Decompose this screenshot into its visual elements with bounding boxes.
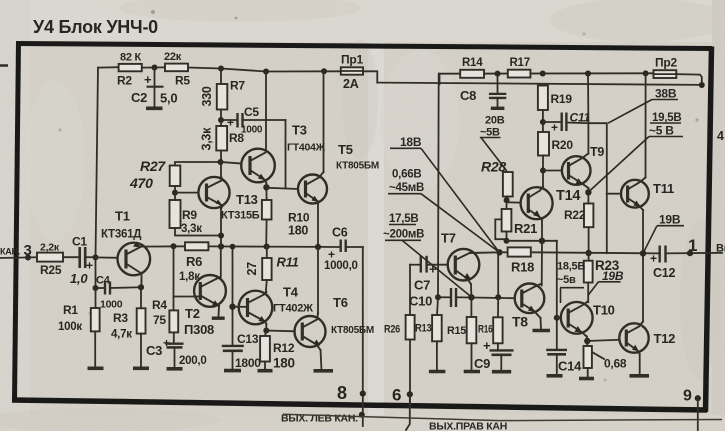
node C10 right / R15 / T7e — [468, 294, 474, 300]
resistor R17 — [508, 70, 531, 78]
transistor T8 — [512, 284, 544, 330]
wire top-left bus — [98, 66, 119, 68]
wire T3 collector — [265, 72, 267, 152]
resistor R8 — [200, 126, 245, 177]
wire T14 base — [507, 201, 520, 203]
left channel — [0, 51, 379, 426]
wire V1 bus to C10 — [437, 74, 440, 298]
node 17,5В annotation — [383, 213, 471, 297]
wire T10e to T12 base — [587, 340, 619, 341]
node C10 left / R13 — [435, 294, 441, 300]
node T4e/T6 base — [263, 328, 269, 334]
node 18,5В annotation — [557, 261, 585, 304]
transistor T2 — [184, 275, 226, 337]
wire Пр2 to corner — [676, 74, 702, 85]
wire T5 emitter to output node — [317, 204, 319, 247]
rail T1 emitter to R6 — [139, 245, 185, 247]
capacitor C2 — [131, 68, 177, 109]
node 6 — [407, 391, 413, 397]
node T11e/T12c output — [640, 250, 646, 256]
node R4 tap on rail — [171, 243, 177, 249]
wire T2 collector — [220, 247, 222, 278]
capacitor C3 — [146, 336, 207, 369]
resistor R18 — [499, 247, 534, 274]
wire T10 emitter — [586, 337, 589, 347]
node C4 left — [93, 285, 99, 291]
rail A from Пр1 to Пр2 corner — [377, 83, 703, 85]
resistor R2 — [119, 64, 142, 71]
node rail output T5/T6 — [315, 244, 321, 250]
output line R18 to C12 — [531, 252, 660, 253]
node R27 tap — [218, 159, 224, 165]
node 20В annotation — [480, 115, 507, 172]
wire T13 emitter to rail — [220, 209, 222, 247]
node T5 collector top — [321, 68, 327, 74]
capacitor C8 — [460, 74, 506, 109]
node T9e/R22 — [585, 189, 591, 195]
capacitor C6 — [324, 226, 363, 273]
node T9 column top — [585, 71, 591, 77]
capacitor C10 — [409, 288, 515, 309]
wire to T6 base — [266, 330, 294, 333]
node T3 collector top — [263, 69, 269, 75]
fuse Пр1 — [341, 53, 364, 92]
wire R1 column — [95, 288, 97, 308]
wire C5 to T5 base — [285, 120, 287, 189]
frame bottom border — [12, 400, 707, 410]
node R19 top — [540, 71, 546, 77]
node C11 tap — [540, 119, 546, 125]
wire C14 column — [556, 241, 558, 350]
wire stub rail A to bus B — [439, 74, 441, 85]
title У4 Блок УНЧ-0 — [33, 17, 158, 37]
wire Пр1 to right rail step — [363, 71, 377, 82]
wire T9 emitter — [587, 188, 589, 204]
resistor R21 — [495, 202, 537, 241]
transistor T10 — [557, 302, 615, 337]
capacitor C12 — [650, 246, 722, 281]
node T13e/R9 — [218, 233, 224, 239]
wire T3 emitter node to T5 base — [265, 183, 267, 200]
wire R21 bottom to C14 column — [507, 240, 557, 242]
node C8 — [495, 71, 501, 77]
node rail R10 — [264, 244, 270, 250]
capacitor C4 — [96, 275, 140, 311]
node 38В annotation — [608, 87, 678, 124]
transistor T13 — [198, 177, 259, 222]
node 19В annotation (T10) — [588, 269, 624, 295]
rail to output node — [266, 246, 340, 248]
wire jog to T11 base column — [588, 123, 606, 253]
node output R22/R23 — [585, 250, 591, 256]
wire R5 to R7 column — [188, 68, 341, 72]
resistor R7 — [200, 69, 245, 127]
transistor T7 — [427, 231, 499, 285]
resistor R14 — [460, 70, 484, 78]
node T14 base — [504, 197, 510, 203]
wire T2 base — [174, 296, 200, 298]
node T4 base — [229, 304, 235, 310]
ground R3 — [133, 366, 149, 370]
node T1 collector / R3 — [138, 284, 144, 290]
wire T14 emitter down — [541, 220, 543, 241]
transistor T6 — [295, 295, 374, 350]
wire node to C10 line — [497, 252, 499, 297]
wire R25-C1 — [63, 256, 79, 258]
resistor R26 — [384, 315, 415, 405]
tick left edge — [0, 64, 8, 67]
frame top border — [16, 44, 712, 49]
wire T6 collector — [317, 247, 319, 313]
wire T5 collector — [323, 71, 325, 172]
wire T9 base — [543, 170, 562, 172]
right channel — [377, 56, 725, 431]
wire T2 emitter to end bar — [218, 306, 221, 317]
resistor R9 — [170, 200, 222, 236]
paper crease band between channels — [368, 42, 384, 431]
node rail T13e — [218, 243, 224, 249]
capacitor C5 — [221, 105, 286, 136]
node T9 base tap — [540, 168, 546, 174]
node T10 base — [554, 315, 560, 321]
wire T7 emitter to C10 node — [470, 284, 472, 297]
resistor R10 — [262, 200, 310, 247]
transistor T4 — [239, 285, 313, 325]
transistor T3 — [221, 123, 326, 184]
resistor R27 — [129, 158, 221, 200]
node 18В annotation — [390, 135, 499, 252]
fuse Пр2 — [654, 56, 678, 79]
capacitor C14 — [546, 350, 582, 376]
wire to T1 base — [96, 256, 118, 258]
frame left border — [15, 42, 19, 402]
node C2 junction — [152, 65, 158, 71]
node R27/R9/T13 base — [172, 190, 178, 196]
wire rail to C13 column — [232, 247, 234, 346]
resistor R16 — [478, 297, 503, 350]
resistor R23 — [584, 258, 620, 302]
transistor T12 — [619, 322, 675, 355]
frame right border — [706, 47, 712, 413]
node T10e/T12 base — [584, 338, 590, 344]
resistor R3 — [111, 308, 146, 367]
wire T12 emitter ground — [639, 354, 641, 375]
resistor R12 — [258, 331, 295, 371]
wire node6 below frame — [406, 394, 410, 430]
paper rule below frame right — [283, 414, 722, 420]
wire T6 emitter ground — [321, 350, 322, 370]
node 9 — [695, 395, 701, 401]
resistor R15 — [447, 297, 480, 371]
resistor R11 — [245, 247, 299, 292]
node R16 top — [495, 294, 501, 300]
resistor R20 — [538, 132, 573, 187]
wire C6 down to node 8 — [362, 247, 364, 426]
resistor R13 — [415, 297, 445, 371]
wire R4 column — [173, 246, 175, 310]
wire node 9 below frame — [697, 398, 699, 430]
capacitor C13 — [222, 332, 261, 371]
wire left bus vertical to input — [96, 68, 99, 258]
wire T14e to T8 collector — [541, 241, 543, 286]
node 19В annotation (C12) — [643, 213, 684, 253]
wire T13 base — [175, 192, 199, 194]
resistor R22 — [564, 204, 593, 261]
node rail A right end — [699, 82, 705, 88]
wire T4 emitter to R12 — [265, 324, 267, 331]
wire R2-R5 — [142, 66, 165, 68]
wire node8 below frame — [359, 412, 365, 418]
bus B R14/R17 — [440, 72, 654, 74]
resistor R5 — [165, 64, 188, 72]
resistor R1 — [58, 303, 100, 368]
resistor R28 — [481, 159, 513, 203]
wire R26 column — [409, 265, 411, 315]
transistor T14 — [521, 187, 581, 220]
node R18 junction — [496, 249, 502, 255]
node 8 — [360, 391, 366, 397]
node 1 — [687, 250, 693, 256]
resistor R19 — [538, 86, 572, 133]
node T3e/R10/T5 base — [263, 184, 269, 190]
wire T11 emitter / T12 collector column — [642, 210, 644, 322]
capacitor C1 — [70, 235, 96, 287]
resistor R4 — [152, 298, 178, 343]
node T1 base — [93, 254, 99, 260]
resistor R25 — [37, 253, 63, 262]
node R7 top — [218, 66, 224, 72]
node T11 column top — [643, 70, 649, 76]
wire T9 collector column with jog — [587, 74, 589, 154]
node 0,66В annotation — [388, 169, 499, 253]
node 19,5В annotation — [588, 112, 683, 192]
transistor T11 — [607, 178, 674, 211]
node R21 bottom — [504, 238, 510, 244]
node C5 tap — [218, 117, 224, 123]
wire T8 emitter ground — [540, 318, 543, 329]
transistor T1 — [101, 209, 150, 288]
resistor R6 — [179, 242, 265, 283]
capacitor C7 — [410, 256, 437, 293]
node T14 emitter — [539, 238, 545, 244]
ground R1 — [88, 366, 104, 370]
wire R3 column — [140, 287, 142, 308]
resistor 0,68 — [579, 346, 627, 379]
capacitor C9 — [474, 338, 514, 372]
transistor T5 — [298, 142, 379, 204]
transistor T9 — [562, 145, 604, 188]
wire T11 collector — [645, 73, 647, 177]
wire T4 base — [233, 306, 248, 308]
wire T10 collector to R23 — [587, 301, 589, 304]
capacitor C11 — [543, 111, 591, 135]
wire vertical input column down — [95, 257, 97, 288]
